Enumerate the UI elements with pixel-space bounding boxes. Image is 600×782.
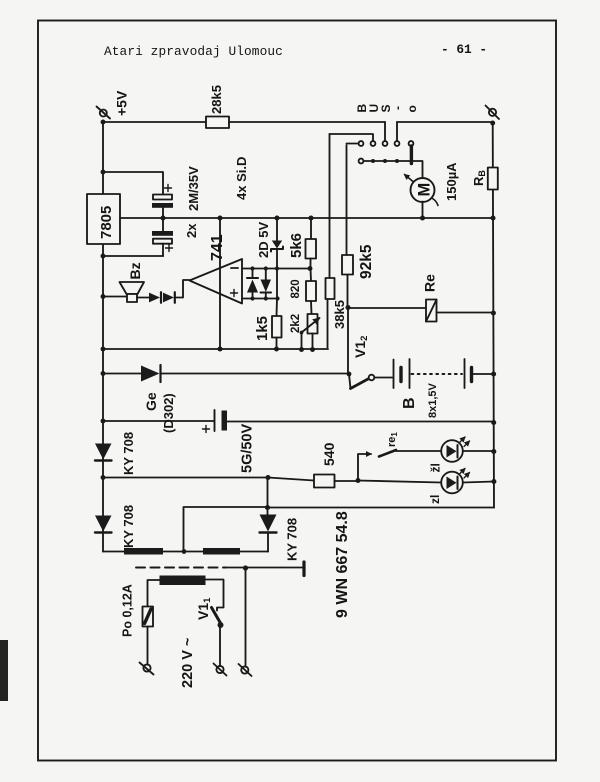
- terminal output right: [486, 106, 500, 120]
- diode D1: [149, 292, 161, 303]
- resistor 820: [306, 269, 316, 315]
- terminal core: [239, 664, 252, 676]
- selector contact 1: [359, 141, 364, 146]
- svg-text:92k5: 92k5: [358, 244, 375, 279]
- wire left rail lower: [102, 244, 104, 552]
- terminal fuse: [140, 663, 154, 675]
- svg-text:1k5: 1k5: [254, 316, 271, 341]
- svg-text:741: 741: [209, 234, 226, 261]
- ground: [302, 562, 305, 576]
- selector contact 3: [383, 141, 388, 146]
- node trimmer bottom: [310, 347, 315, 352]
- svg-text:KY 708: KY 708: [121, 432, 136, 475]
- capacitor C1 2M/35V: [152, 195, 173, 219]
- svg-text:o: o: [405, 105, 419, 112]
- wire V11 down: [219, 625, 221, 666]
- wire opamp supply: [219, 218, 221, 349]
- node cap feed: [101, 170, 106, 175]
- svg-text:-: -: [391, 106, 405, 110]
- zener diode 2D5V: [271, 218, 283, 269]
- node cap mid: [160, 215, 165, 220]
- svg-text:KY 708: KY 708: [285, 518, 300, 561]
- wire right rail: [493, 123, 494, 508]
- fuse Po 0.12A: [143, 607, 154, 627]
- wire meter bottom: [422, 202, 424, 219]
- svg-text:28k5: 28k5: [209, 85, 224, 114]
- selector labels B U S - o: [355, 104, 419, 113]
- wire 92k5 to switch: [347, 308, 349, 375]
- node 5k6 bottom: [308, 266, 313, 271]
- node Ge left: [101, 371, 106, 376]
- svg-text:2M/35V: 2M/35V: [186, 166, 201, 211]
- svg-text:žl: žl: [429, 463, 443, 472]
- node switch V12: [347, 372, 352, 377]
- node zener rail: [274, 215, 279, 220]
- wire core to ground: [226, 567, 303, 569]
- resistor 1k5: [272, 299, 282, 350]
- wire led2 left: [358, 481, 441, 483]
- node relay right: [491, 310, 496, 315]
- node d3 top: [250, 266, 254, 270]
- wire left rail upper: [102, 122, 104, 194]
- trimmer 2k2: [302, 314, 320, 350]
- wire led loop bottom: [268, 507, 495, 509]
- diode D3: [247, 269, 258, 299]
- capacitor 5G/50V: [215, 410, 494, 431]
- svg-text:150µA: 150µA: [444, 162, 459, 201]
- svg-text:4x Si.D: 4x Si.D: [234, 157, 249, 200]
- buzzer Bz: [120, 282, 145, 302]
- svg-text:M: M: [416, 183, 434, 197]
- wire top rail right: [397, 121, 493, 123]
- svg-text:8x1,5V: 8x1,5V: [427, 382, 439, 418]
- selector contact 2: [371, 141, 376, 146]
- wire 540 to leds: [335, 480, 359, 482]
- node V11 pivot: [218, 622, 224, 628]
- op-amp U1 741: [190, 259, 243, 304]
- node minus rail right: [491, 420, 496, 425]
- wire centre tap: [184, 507, 268, 549]
- node supply bottom: [217, 346, 222, 351]
- LED zl1: [441, 437, 469, 462]
- regulator 7805: [87, 194, 120, 244]
- node supply top: [217, 215, 222, 220]
- node led1 right: [491, 449, 496, 454]
- node cap return: [101, 254, 106, 259]
- svg-text:7805: 7805: [98, 206, 115, 239]
- wire contact1 to 92k5: [347, 143, 359, 145]
- node led split: [355, 478, 360, 483]
- wire inverting input line: [242, 268, 310, 270]
- meter M 150uA: [405, 175, 439, 206]
- node trimmer wiper: [300, 331, 304, 335]
- wire cap feed: [103, 172, 163, 195]
- wire primary left: [148, 580, 160, 607]
- svg-text:2k2: 2k2: [290, 314, 302, 333]
- wire re1 branch: [358, 454, 371, 481]
- diode KY708 a: [95, 444, 112, 461]
- svg-text:2D 5V: 2D 5V: [256, 222, 271, 258]
- cap 5G plus: [203, 426, 210, 433]
- selector contact 4: [395, 141, 400, 146]
- svg-text:(D302): (D302): [161, 393, 176, 433]
- svg-text:V11: V11: [195, 597, 213, 620]
- node 92k5 bottom: [345, 305, 350, 310]
- svg-text:V12: V12: [352, 336, 370, 358]
- resistor 5k6: [306, 218, 317, 269]
- selector contact 5: [409, 141, 414, 146]
- switch re1 lever: [379, 450, 396, 457]
- resistor 92k5: [342, 145, 353, 308]
- node row 4: [395, 159, 399, 163]
- wire noninverting input line: [242, 298, 278, 300]
- node bridge mid: [265, 505, 270, 510]
- wire mid rail +V: [120, 217, 493, 219]
- node 5k6 rail: [308, 215, 313, 220]
- wire opamp output: [176, 280, 190, 298]
- resistor 540: [314, 475, 335, 488]
- wire core tap down: [245, 568, 247, 667]
- resistor RB: [488, 168, 498, 190]
- diode D4: [261, 269, 272, 299]
- wire cap return: [103, 255, 163, 257]
- terminal +5V input: [97, 107, 111, 119]
- node meter rail: [420, 215, 425, 220]
- svg-text:220 V ~: 220 V ~: [180, 638, 196, 688]
- wire primary right: [205, 580, 224, 611]
- wire led2 right: [463, 482, 494, 483]
- wire zero rail: [103, 348, 328, 350]
- capacitor C2 plus: [166, 245, 173, 252]
- node led2 right: [491, 479, 496, 484]
- pin minus: [231, 267, 238, 269]
- wire Ge line: [103, 373, 141, 375]
- svg-text:Ge: Ge: [143, 392, 159, 411]
- terminal V11: [214, 664, 227, 676]
- transformer secondary: [103, 548, 268, 555]
- svg-text:5k6: 5k6: [288, 233, 305, 258]
- battery B 8x1.5V: [394, 359, 494, 388]
- selector wiper bar: [410, 146, 413, 164]
- svg-text:820: 820: [290, 279, 302, 298]
- node trimmer tap: [299, 347, 304, 352]
- relay coil Re: [348, 300, 493, 322]
- node minus rail left: [101, 419, 106, 424]
- node mid rail right: [490, 215, 495, 220]
- node d3 bottom: [250, 296, 254, 300]
- diode Ge D302: [141, 365, 161, 382]
- svg-text:2x: 2x: [184, 223, 199, 238]
- wire minus rail: [103, 420, 214, 422]
- resistor 28k5: [206, 117, 229, 129]
- node row 3: [383, 159, 387, 163]
- svg-text:KY 708: KY 708: [121, 505, 136, 548]
- diode D2: [163, 292, 175, 303]
- svg-text:Re: Re: [422, 274, 438, 292]
- svg-text:B: B: [401, 397, 418, 409]
- wire fuse down: [147, 627, 149, 665]
- diode KY708 b: [95, 516, 112, 533]
- wire Ge to switch: [161, 373, 349, 375]
- svg-text:- 61 -: - 61 -: [441, 42, 487, 57]
- wire bridge rail: [103, 478, 314, 481]
- node 1k5 bottom: [274, 347, 279, 352]
- svg-text:540: 540: [321, 442, 337, 466]
- node bridge rail left: [101, 475, 106, 480]
- svg-text:38k5: 38k5: [332, 300, 347, 329]
- node zero rail left: [101, 347, 106, 352]
- node +5V rail junction: [101, 120, 106, 125]
- wire buzzer right: [137, 297, 149, 299]
- node core tap: [243, 565, 248, 570]
- switch V11 lever: [212, 608, 222, 625]
- wire top rail left: [103, 121, 206, 123]
- svg-text:Bz: Bz: [127, 262, 143, 279]
- wire re1 to led1: [396, 450, 441, 452]
- capacitor C1 plus: [165, 185, 172, 192]
- svg-text:zl: zl: [428, 495, 442, 504]
- resistor 38k5: [326, 134, 335, 348]
- node zener cross: [275, 266, 279, 270]
- wire riser contact 3: [384, 122, 386, 141]
- node plus line end: [275, 296, 279, 300]
- wire bridge right riser: [267, 478, 269, 515]
- scan smudge left edge: [0, 640, 8, 701]
- transformer core dashed: [136, 567, 226, 569]
- pin plus: [231, 290, 238, 297]
- LED zl2: [441, 469, 469, 494]
- selector common row: [363, 161, 422, 179]
- svg-text:Atari zpravodaj Ulomouc: Atari zpravodaj Ulomouc: [104, 44, 283, 59]
- node battery right: [491, 371, 496, 376]
- svg-text:re1: re1: [386, 432, 399, 447]
- wire riser contact 4: [396, 122, 398, 141]
- svg-text:5G/50V: 5G/50V: [240, 424, 256, 473]
- wire led1 right: [463, 450, 494, 452]
- LABELS (rotated): [98, 85, 487, 688]
- svg-text:Po 0,12A: Po 0,12A: [121, 584, 135, 637]
- node bridge rail right: [265, 475, 270, 480]
- wire contact2 to 38k5: [330, 134, 374, 141]
- wire buzzer left: [103, 296, 127, 298]
- transformer primary: [160, 576, 206, 586]
- capacitor C2 2M/35V: [152, 218, 173, 256]
- node right rail top: [490, 121, 495, 126]
- node row 2: [371, 159, 375, 163]
- node centre tap: [182, 549, 187, 554]
- node buzzer tap: [101, 294, 106, 299]
- selector common terminal: [359, 159, 364, 164]
- svg-text:RB: RB: [471, 170, 487, 186]
- node d4 top: [264, 266, 268, 270]
- svg-text:+5V: +5V: [114, 90, 130, 116]
- wire zener to plus line: [276, 269, 278, 299]
- node d4 bottom: [264, 296, 268, 300]
- diode KY708 c: [260, 515, 277, 552]
- switch V12: [349, 374, 392, 389]
- svg-text:9 WN 667 54.8: 9 WN 667 54.8: [334, 511, 351, 618]
- wire top rail middle: [229, 121, 385, 123]
